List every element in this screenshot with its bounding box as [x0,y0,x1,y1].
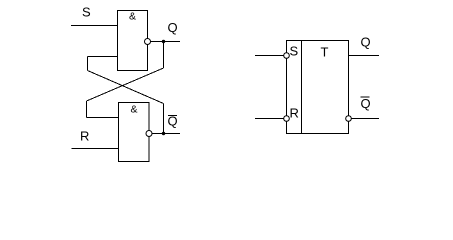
svg-text:R: R [290,106,299,121]
output bubble of DD2 [146,131,152,137]
inversion bubble S input of DD3 [284,53,290,59]
output bubble of DD1 [145,39,151,45]
svg-text:Q: Q [361,96,371,111]
wire Q output [151,41,181,43]
wire Qbar output [152,133,180,135]
svg-text:S: S [290,44,299,59]
node Q junction [162,40,165,43]
wire S input [71,25,118,27]
wire DD1 second input [88,56,118,58]
svg-text:Q: Q [168,114,178,129]
wire DD2 first input [87,117,119,119]
wire diagonal feedback from Q node to DD2 input [87,68,164,101]
wire Qbar output of DD3 [351,118,379,120]
wire vertical from Q junction [163,42,165,69]
label Qbar overbar [168,115,177,117]
svg-text:&: & [129,11,136,23]
inversion bubble Qbar output of DD3 [346,116,352,122]
svg-text:T: T [321,45,329,60]
svg-text:Q: Q [168,20,178,35]
wire Q output of DD3 [349,55,380,57]
flip-flop DD3 control column divider [301,41,303,134]
wire diagonal feedback from DD1 input to Qbar node [88,71,164,104]
nand gate DD2 (bottom) [119,103,150,162]
wire vertical down to Qbar junction [163,104,165,134]
svg-text:S: S [82,5,91,20]
wire S input of DD3 [255,55,284,57]
node Qbar junction [162,132,165,135]
nand gate DD1 (top) [118,11,148,71]
svg-text:&: & [130,104,137,116]
svg-text:Q: Q [361,35,371,50]
label Qbar overbar of DD3 [361,96,370,98]
inversion bubble R input of DD3 [284,116,290,122]
flip-flop block DD3 body [287,41,349,134]
svg-text:R: R [80,129,89,144]
wire vertical to DD2 first input [86,101,88,118]
wire vertical from DD1 second input [87,57,89,71]
wire R input of DD3 [255,118,284,120]
wire R input [72,148,119,150]
